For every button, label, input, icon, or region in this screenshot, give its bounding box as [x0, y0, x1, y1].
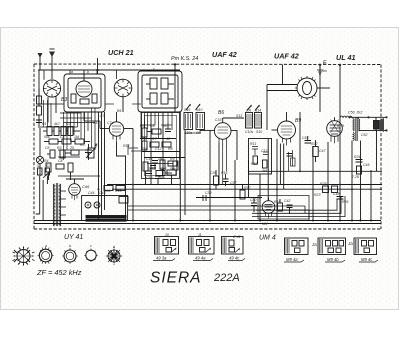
svg-text:Ja: Ja — [347, 241, 353, 246]
svg-text:R1: R1 — [42, 122, 47, 126]
svg-text:B3: B3 — [61, 97, 67, 103]
svg-text:a: a — [71, 70, 73, 74]
vertical wire w7 — [179, 112, 181, 221]
output transformer T2 — [353, 117, 360, 141]
vertical wire w9 — [209, 130, 211, 220]
vertical wire w3 — [104, 112, 106, 210]
det stage verticals — [223, 143, 295, 185]
chassis bus line lower — [34, 223, 381, 225]
svg-text:R8: R8 — [168, 147, 173, 151]
label underline 49.4a — [193, 259, 213, 261]
resistor R17 — [240, 185, 245, 200]
svg-text:11: 11 — [198, 233, 202, 237]
coil former icon L1 (scribble) — [13, 247, 35, 266]
svg-text:P1: P1 — [95, 143, 99, 147]
svg-text:R16: R16 — [221, 171, 227, 175]
resistor R32 — [173, 161, 178, 170]
capacitor C30 — [150, 166, 156, 169]
resistor R16 — [214, 170, 219, 189]
svg-text:UAF 42: UAF 42 — [274, 52, 299, 61]
bundle tie wires — [40, 113, 100, 176]
IF unit box 49.4c — [222, 237, 244, 255]
vertical wire w5 — [150, 112, 152, 185]
resistor R9 — [147, 129, 161, 134]
magic eye grid resistor R19 — [278, 199, 283, 211]
svg-text:C4: C4 — [93, 121, 98, 125]
svg-text:C9: C9 — [150, 124, 155, 128]
svg-text:N10: N10 — [196, 108, 202, 112]
electrolytic capacitor block (dark) — [86, 216, 126, 222]
grid cap wire to UCH21 — [84, 112, 100, 129]
svg-text:UCH 21: UCH 21 — [108, 48, 134, 57]
loudspeaker — [374, 117, 385, 132]
IF unit box 49.3a — [155, 237, 179, 255]
vertical wire w10 — [218, 143, 220, 185]
RF coil can with mixer grid components — [64, 70, 105, 112]
vertical wire w23 — [351, 141, 353, 221]
coil icon L4 — [84, 249, 97, 263]
svg-text:C7a: C7a — [107, 121, 113, 125]
capacitor C15 — [152, 161, 158, 171]
wire mid v3 — [171, 175, 173, 185]
svg-text:C8: C8 — [58, 159, 63, 163]
resistor R8 — [142, 121, 147, 137]
svg-text:C3: C3 — [66, 122, 71, 126]
resistor R30 — [143, 162, 148, 171]
svg-text:R17: R17 — [244, 186, 251, 190]
IF trimmer pair second C12/C13 with arrows — [246, 105, 262, 128]
svg-text:C12: C12 — [155, 147, 161, 151]
svg-text:Si: Si — [37, 164, 40, 168]
output tube UL41 — [327, 117, 343, 143]
bypass capacitor C47 — [305, 136, 312, 143]
heater drop resistor — [104, 186, 125, 191]
label underline M9.4a — [284, 260, 304, 262]
svg-text:49 4c: 49 4c — [229, 256, 240, 261]
vertical wire w25 — [370, 171, 372, 220]
svg-text:S10a: S10a — [184, 131, 192, 135]
capacitor C19 — [196, 195, 206, 201]
AF/demod tube UAF42 (second) — [272, 112, 296, 146]
svg-text:222A: 222A — [213, 272, 240, 284]
svg-text:8: 8 — [342, 124, 344, 128]
label underline M9.4b — [325, 260, 345, 262]
heater stub box — [119, 197, 128, 204]
svg-text:50k: 50k — [44, 135, 50, 139]
svg-text:R26: R26 — [342, 200, 348, 204]
svg-text:C47: C47 — [319, 149, 326, 153]
loudspeaker rails — [349, 116, 387, 118]
left input coupling box — [37, 89, 42, 105]
capacitor C31 — [155, 176, 161, 179]
top supply bus wire — [38, 69, 180, 71]
svg-text:ZF = 452 kHz: ZF = 452 kHz — [36, 268, 82, 277]
svg-text:Cw: Cw — [196, 131, 202, 135]
electrolytic C46 — [94, 202, 100, 208]
mains transformer T1 core — [56, 183, 57, 226]
chassis bus line upper — [34, 220, 381, 222]
svg-text:C13: C13 — [146, 157, 152, 161]
svg-text:4m: 4m — [322, 69, 327, 73]
wire from gang C to mixer — [122, 97, 124, 112]
AVC filter resistor R2 row — [44, 139, 90, 144]
tuning gang section 1 (spoked circle) — [43, 80, 60, 97]
svg-text:R11: R11 — [250, 142, 256, 146]
svg-text:C14: C14 — [160, 167, 166, 171]
svg-text:C40: C40 — [250, 198, 256, 202]
vertical wire w20 — [319, 65, 321, 112]
svg-text:C36: C36 — [210, 171, 216, 175]
vertical wire w18 — [299, 112, 301, 171]
svg-text:R4: R4 — [44, 159, 49, 163]
svg-text:E: E — [323, 60, 327, 66]
svg-text:b: b — [87, 70, 89, 74]
svg-text:C 41: C 41 — [233, 235, 241, 239]
HT line to output stage — [339, 64, 341, 120]
wire UAF42 anode to IF can 2 — [231, 130, 237, 160]
svg-text:49 4a: 49 4a — [195, 256, 206, 261]
resistor R14 — [156, 171, 172, 176]
svg-text:C17: C17 — [261, 149, 268, 153]
svg-text:R24: R24 — [354, 155, 360, 159]
vertical wire w6 — [162, 112, 164, 178]
svg-text:C5: C5 — [60, 135, 65, 139]
volume potentiometer arrow — [86, 144, 97, 159]
vertical wire w1 — [98, 112, 100, 221]
resistor R31 — [167, 170, 176, 175]
aerial return to AF grid — [266, 118, 268, 130]
vertical wire w26 — [376, 130, 378, 171]
magic eye cap C22 — [287, 205, 293, 214]
svg-text:Ja: Ja — [311, 242, 317, 247]
svg-text:C54: C54 — [302, 136, 308, 140]
svg-text:R19: R19 — [274, 200, 280, 204]
heater wire lower — [112, 188, 382, 190]
svg-text:S10: S10 — [184, 108, 190, 112]
svg-text:C42: C42 — [284, 199, 290, 203]
grid resistor R4 — [46, 163, 73, 180]
svg-text:C36: C36 — [104, 189, 110, 193]
svg-text:M9 4c: M9 4c — [361, 257, 373, 262]
svg-text:50k: 50k — [170, 167, 176, 171]
osc coil tap wires — [140, 112, 172, 139]
cathode resistor R22 — [313, 140, 319, 162]
wire gang A lower pin — [47, 97, 49, 123]
svg-text:C39: C39 — [205, 191, 211, 195]
svg-text:2%: 2% — [245, 109, 251, 113]
svg-text:UM: UM — [262, 222, 268, 226]
svg-text:B9: B9 — [295, 118, 301, 124]
coil tap wire bundle left — [64, 108, 96, 160]
svg-text:C11: C11 — [141, 137, 147, 141]
svg-text:2n: 2n — [157, 157, 162, 161]
smoothing block rectangle — [82, 196, 128, 221]
svg-text:UL 41: UL 41 — [336, 53, 355, 62]
dial lamp wire — [43, 70, 45, 80]
IF amp tube UAF42 (first) — [200, 118, 244, 145]
wave band switch S1 — [36, 128, 43, 176]
vertical wire w22 — [339, 120, 341, 221]
tuning gang section 2 (spoked circle) — [114, 79, 132, 97]
chassis dashed border — [34, 64, 381, 229]
IF transformer shield can — [142, 113, 180, 179]
wire mid v2 — [157, 179, 159, 185]
svg-text:C44: C44 — [88, 191, 94, 195]
mains transformer T1 secondary — [60, 184, 67, 226]
svg-text:R5: R5 — [80, 143, 85, 147]
vertical wire w21 — [327, 142, 329, 221]
mains lead left — [36, 168, 50, 220]
vertical wire w17 — [283, 144, 285, 190]
resistor R13 — [168, 161, 177, 166]
frame aerial (spoked circle) — [267, 76, 330, 118]
label underline 49.3a — [153, 259, 175, 261]
svg-text:40: 40 — [166, 137, 170, 141]
wire gang A stator — [55, 96, 57, 113]
svg-text:1M: 1M — [74, 135, 79, 139]
svg-text:C6: C6 — [45, 146, 50, 150]
coil pack box M9.4b — [318, 238, 346, 255]
svg-text:Pm K.S. 24: Pm K.S. 24 — [171, 56, 198, 62]
svg-text:B5: B5 — [117, 109, 121, 113]
IF trimmer pair C10/C11 with adjustment arrows — [184, 104, 205, 130]
svg-text:4M7: 4M7 — [262, 169, 270, 173]
tone capacitor C49 — [356, 160, 363, 175]
vertical wire w15 — [276, 139, 278, 221]
IF shield inner wall — [145, 116, 177, 176]
diode load box — [249, 139, 272, 175]
heater wire upper — [107, 184, 382, 186]
label underline M9.4c — [359, 260, 378, 262]
magic eye mounting outline — [258, 196, 309, 220]
resistor R11 — [150, 142, 171, 147]
bus junction dots — [98, 220, 373, 222]
left column capacitor C2 — [36, 120, 42, 123]
left column verticals — [44, 100, 52, 127]
svg-text:C50 Dr2: C50 Dr2 — [348, 111, 362, 115]
svg-text:SIERA: SIERA — [150, 270, 202, 287]
vertical wire w24 — [360, 141, 362, 221]
wire from UCH21 cathode to bus — [117, 142, 126, 221]
HT choke to output transformer — [340, 116, 352, 118]
dial lamp feed wire — [96, 58, 98, 74]
antenna arrow 1 — [38, 53, 43, 70]
svg-text:C15: C15 — [146, 176, 152, 180]
padder wires — [185, 113, 200, 134]
vertical wire w14 — [267, 139, 269, 201]
IF unit box 49.4a — [189, 237, 215, 255]
svg-text:49 3a: 49 3a — [156, 256, 167, 261]
HT feed wire from border top — [174, 63, 176, 112]
AVC divider resistor R1 — [43, 127, 80, 136]
coupling cap C48 — [337, 197, 344, 200]
svg-text:M9 4b: M9 4b — [327, 257, 339, 262]
svg-text:C37: C37 — [230, 181, 237, 185]
tiny component value annotations — [37, 67, 369, 249]
capacitor C14 — [165, 123, 171, 132]
earth terminal E — [317, 64, 323, 75]
oscillator coil can — [138, 71, 182, 112]
gang pin stub row — [40, 104, 185, 164]
svg-text:7.28: 7.28 — [352, 175, 359, 179]
svg-text:300: 300 — [148, 167, 154, 171]
wire mid v1 — [145, 171, 147, 185]
vertical wire w12 — [248, 160, 250, 198]
label underline 49.4c — [228, 259, 245, 261]
vertical wire w2 — [101, 112, 103, 215]
vertical wire w16 — [279, 144, 281, 185]
svg-text:C48: C48 — [333, 192, 339, 196]
wire mid h1 — [140, 138, 176, 140]
B+ loop corners — [128, 196, 345, 221]
mains transformer T1 primary — [53, 184, 54, 226]
svg-text:R3: R3 — [57, 146, 62, 150]
antenna arrow 2 — [49, 49, 55, 79]
svg-text:R23: R23 — [314, 193, 320, 197]
svg-text:C10s: C10s — [245, 130, 253, 134]
svg-text:S2: S2 — [46, 164, 50, 168]
svg-text:25: 25 — [69, 146, 74, 150]
antenna series capacitor C1 — [37, 70, 42, 128]
frame aerial feed vertical — [282, 65, 284, 85]
svg-text:c: c — [90, 244, 92, 248]
screen bypass cap C6 — [85, 144, 92, 160]
can feed stubs — [70, 70, 158, 79]
wire mid h2 — [142, 151, 180, 153]
capacitor C16 — [146, 171, 152, 174]
capacitor C18 — [223, 174, 229, 186]
svg-text:C52: C52 — [361, 133, 367, 137]
cathode return wire — [196, 197, 262, 199]
junction dots speaker rails — [348, 116, 387, 131]
resistor R10 — [142, 141, 147, 150]
svg-text:9: 9 — [337, 124, 339, 128]
svg-text:R15: R15 — [115, 189, 121, 193]
capacitor C20 — [251, 198, 257, 213]
rectifier tube UY41 — [66, 179, 84, 200]
svg-text:R12: R12 — [251, 162, 257, 166]
svg-text:25k: 25k — [141, 147, 148, 151]
grid resistor R23 — [323, 186, 338, 193]
svg-text:C49: C49 — [363, 163, 369, 167]
trimmer core icon L2 — [38, 247, 54, 264]
svg-text:a: a — [45, 244, 47, 248]
coil pack box M9.4a — [285, 238, 309, 255]
svg-text:M9 4a: M9 4a — [286, 257, 298, 262]
mixer anode wires — [128, 144, 141, 155]
junction dots on distribution wires — [98, 170, 373, 198]
svg-text:b: b — [69, 244, 71, 248]
wire mid h3 — [144, 157, 185, 159]
svg-text:R22: R22 — [311, 142, 317, 146]
svg-text:R25: R25 — [320, 182, 326, 186]
vertical wire w13 — [259, 174, 261, 221]
svg-text:UAF 42: UAF 42 — [212, 50, 237, 59]
svg-text:R14: R14 — [123, 144, 129, 148]
mains switch contact — [43, 173, 48, 178]
trimmer core icon L3 — [62, 248, 78, 264]
resistor R12 — [160, 160, 165, 176]
ferrite bead icon L5 (dense) — [106, 247, 123, 265]
svg-text:UY 41: UY 41 — [64, 234, 83, 241]
triode-hexode tube UCH21 — [100, 112, 133, 142]
vertical wire w11 — [234, 160, 236, 221]
electrolytic C45 — [85, 202, 91, 208]
svg-text:S13: S13 — [236, 114, 242, 118]
svg-text:S10: S10 — [256, 130, 262, 134]
svg-text:C46: C46 — [82, 184, 90, 189]
svg-text:10: 10 — [165, 233, 169, 237]
svg-text:c: c — [153, 67, 155, 71]
coupling capacitor C4 — [47, 150, 79, 158]
svg-text:1k: 1k — [163, 124, 167, 128]
vertical wire w8 — [184, 130, 186, 216]
svg-text:R10: R10 — [158, 176, 164, 180]
svg-text:R6: R6 — [140, 124, 145, 128]
svg-text:S14: S14 — [255, 109, 261, 113]
svg-text:UM 4: UM 4 — [259, 235, 276, 242]
svg-text:B6: B6 — [218, 110, 224, 116]
coil pack box M9.4c — [354, 238, 377, 255]
vertical wire w4 — [132, 129, 134, 221]
svg-text:R9: R9 — [170, 157, 175, 161]
vertical wire w19 — [312, 146, 314, 221]
AVC line — [249, 170, 383, 172]
svg-text:C33: C33 — [215, 118, 221, 122]
